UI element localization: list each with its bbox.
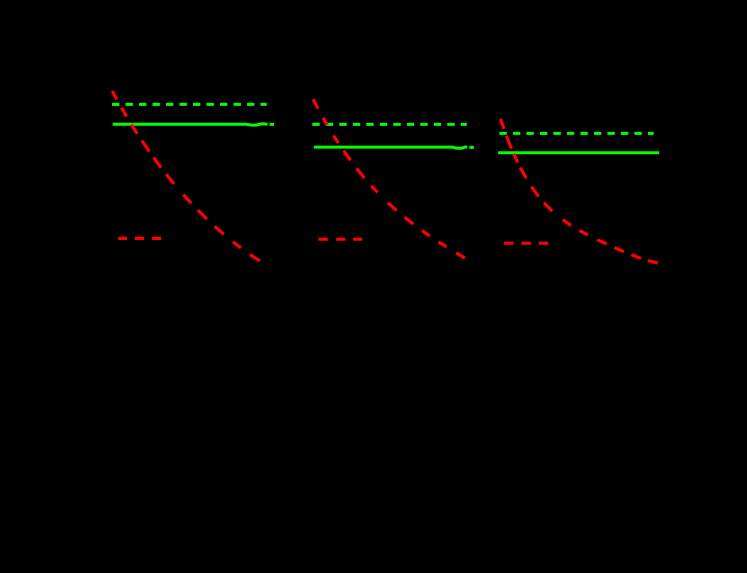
panel 1 red dashed decaying curve (112, 91, 260, 261)
panel 1 green dashed bound line (112, 103, 267, 106)
panel 2 green dashed bound line (312, 123, 467, 126)
panel 3 red dashed decaying curve (501, 119, 658, 263)
panel 3 green solid capacity line (498, 151, 659, 154)
panel 2 green solid capacity line (314, 147, 474, 148)
panel 3 red dashed legend sample (504, 242, 548, 245)
panel 2 red dashed decaying curve (313, 99, 465, 258)
panel 1 green solid capacity line (113, 124, 275, 125)
panel 1 red dashed legend sample (118, 237, 161, 240)
panel 3 green dashed bound line (499, 132, 653, 135)
panel 2 red dashed legend sample (318, 238, 362, 241)
